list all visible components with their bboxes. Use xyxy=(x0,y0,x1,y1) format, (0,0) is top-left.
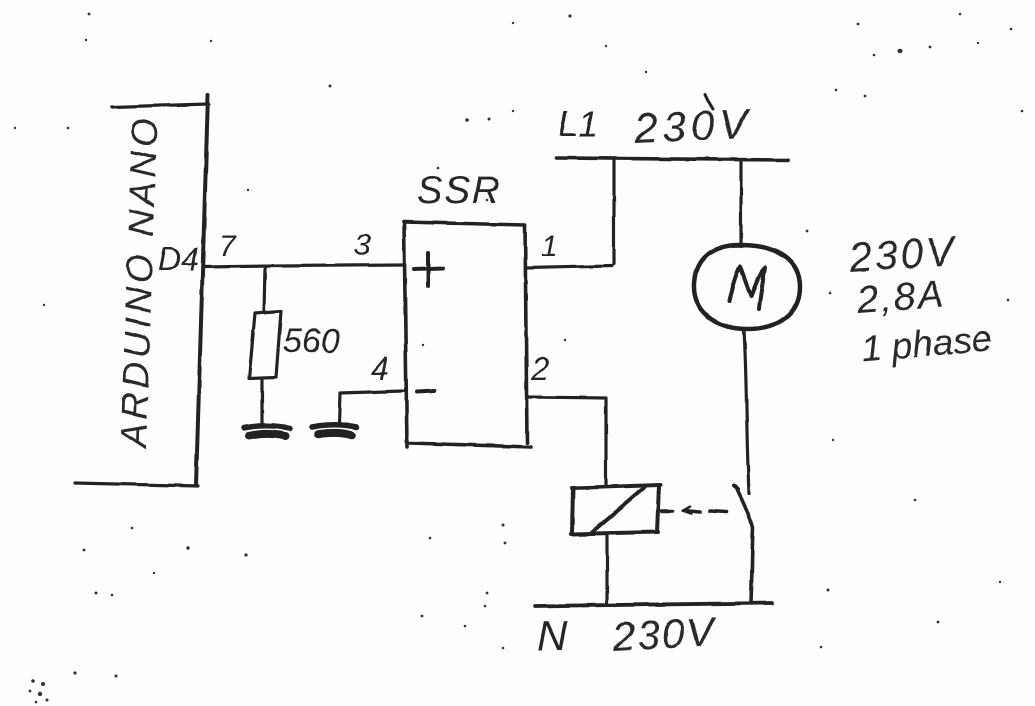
wire D4 to SSR pin 3 xyxy=(203,265,403,267)
plus terminal xyxy=(414,253,443,286)
svg-text:ARDUINO NANO: ARDUINO NANO xyxy=(113,114,166,451)
svg-text:1: 1 xyxy=(541,230,558,263)
bottom-left ink cluster xyxy=(31,679,35,683)
ground at SSR pin 4 xyxy=(312,425,357,435)
wire relay coil to N bus xyxy=(605,533,608,603)
minus terminal xyxy=(417,391,434,392)
svg-text:230V: 230V xyxy=(632,100,753,152)
wire L1 bus to motor xyxy=(739,161,742,246)
N 230V bus xyxy=(535,603,772,606)
resistor R1 body xyxy=(249,311,281,379)
svg-text:2,8A: 2,8A xyxy=(855,273,947,322)
stray pen tick above 230V xyxy=(705,94,713,109)
SSR U2 box xyxy=(404,222,531,447)
relay coil K1 xyxy=(571,485,660,534)
switch contact S1 xyxy=(736,487,753,601)
dashed mechanical link xyxy=(661,511,726,513)
svg-text:L1: L1 xyxy=(558,103,598,144)
motor M1 xyxy=(694,245,800,329)
svg-text:3: 3 xyxy=(354,229,371,262)
L1 230V bus xyxy=(556,158,788,160)
label M xyxy=(729,267,765,309)
svg-text:2: 2 xyxy=(530,351,549,387)
wire SSR pin 4 to ground xyxy=(339,391,403,424)
wire motor to switch xyxy=(744,330,749,493)
svg-text:1 phase: 1 phase xyxy=(859,318,994,370)
wire SSR pin 1 to L1 bus xyxy=(527,161,614,268)
wire SSR pin 2 to relay coil xyxy=(528,397,606,486)
annotation 230V 2,8A 1 phase xyxy=(846,228,993,370)
ground under resistor xyxy=(244,426,290,436)
arduino nano box xyxy=(75,95,209,486)
svg-text:4: 4 xyxy=(371,351,389,387)
svg-text:SSR: SSR xyxy=(417,170,501,212)
svg-text:7: 7 xyxy=(219,230,237,263)
svg-text:560: 560 xyxy=(283,322,340,360)
svg-text:230V: 230V xyxy=(610,609,719,661)
resistor R1 wire top xyxy=(264,267,265,312)
svg-text:N: N xyxy=(537,612,568,659)
resistor R1 wire bottom xyxy=(260,379,263,425)
svg-text:D4: D4 xyxy=(158,241,199,277)
